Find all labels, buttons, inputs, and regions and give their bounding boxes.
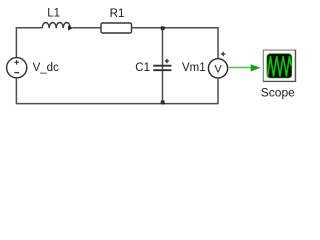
wire bottom	[16, 103, 218, 105]
scope body shadow edge	[264, 50, 296, 81]
C1 plus sign	[165, 59, 169, 63]
wire top left segment	[16, 27, 42, 29]
svg-text:L1: L1	[47, 8, 60, 20]
dc source V_dc	[7, 58, 27, 78]
V_dc plus sign	[14, 60, 19, 65]
capacitor C1 plates	[153, 66, 171, 71]
capacitor branch wire	[162, 28, 164, 104]
scope screen	[267, 54, 292, 78]
svg-text:V_dc: V_dc	[33, 62, 59, 74]
arrowhead after L1	[68, 26, 73, 31]
inductor L1	[42, 23, 70, 29]
wire left vertical upper	[15, 27, 17, 58]
svg-text:Vm1: Vm1	[182, 62, 206, 74]
wire right vertical upper	[217, 27, 219, 59]
junction node top	[161, 26, 165, 30]
svg-text:V: V	[214, 63, 222, 75]
wire L1 to R1	[73, 27, 102, 29]
scope waveform	[267, 56, 291, 78]
svg-text:Scope: Scope	[261, 86, 295, 100]
voltmeter Vm1	[208, 59, 227, 78]
wire left vertical lower	[15, 78, 17, 104]
signal arrowhead	[251, 64, 261, 71]
svg-text:R1: R1	[110, 8, 125, 20]
resistor R1	[101, 23, 132, 33]
Vm1 plus sign	[221, 52, 225, 56]
svg-text:C1: C1	[135, 62, 150, 74]
V_dc minus sign	[14, 72, 19, 74]
wire right vertical lower	[217, 78, 219, 105]
signal line Vm1 to Scope	[228, 67, 252, 69]
junction node bottom	[161, 100, 165, 104]
wire R1 to Vm1 branch	[132, 27, 219, 29]
scope block body	[263, 50, 295, 82]
